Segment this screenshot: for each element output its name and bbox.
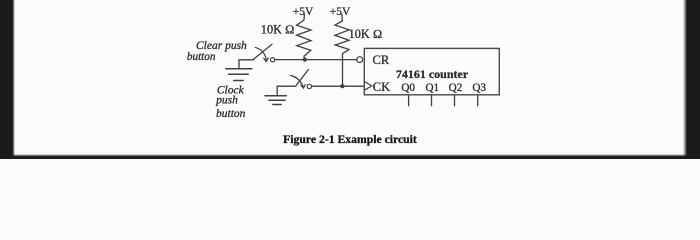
svg-text:+5V: +5V — [293, 6, 314, 18]
wire: Q0 output pin — [408, 95, 410, 106]
svg-text:Q2: Q2 — [449, 82, 463, 94]
wire: clear ground riser and stub to switch — [239, 60, 254, 68]
wire: R2 bottom down to CK net (crosses CR wire) — [342, 54, 344, 87]
right black border bar — [682, 0, 700, 159]
svg-text:Q1: Q1 — [425, 82, 439, 94]
wire: CK net from switch to counter — [312, 85, 365, 87]
resistor R2 10K ohm zigzag — [335, 21, 349, 54]
wire: Q3 output pin — [477, 95, 479, 106]
switch S2 clock pushbutton lever — [296, 70, 309, 86]
svg-text:button: button — [187, 51, 216, 63]
svg-text:Q3: Q3 — [472, 82, 486, 94]
switch S1 clear pushbutton lever — [254, 44, 273, 59]
switch S1 actuator arrow — [255, 47, 266, 59]
left black border bar — [0, 0, 16, 159]
ground (clock button) — [265, 96, 286, 105]
svg-text:CR: CR — [373, 53, 390, 67]
resistor R1 10K ohm zigzag — [297, 20, 311, 56]
svg-text:10K Ω: 10K Ω — [261, 23, 295, 37]
svg-text:push: push — [215, 95, 238, 107]
wire: R1 bottom to CR net — [303, 56, 306, 59]
svg-text:Q0: Q0 — [401, 82, 415, 94]
switch S2 contact circle — [307, 84, 311, 88]
wire: +5V lead into R1 — [303, 14, 305, 20]
wire: clock ground riser and stub to switch — [277, 86, 296, 95]
svg-text:Figure 2-1 Example circuit: Figure 2-1 Example circuit — [283, 133, 417, 146]
junction dot on CK net at R2 — [340, 84, 344, 88]
ground (clear button) — [226, 69, 252, 81]
wire: Q2 output pin — [454, 95, 456, 106]
CR input inverter bubble — [357, 57, 363, 63]
bottom black border bar — [0, 153, 700, 159]
switch S2 actuator arrow — [291, 76, 304, 87]
svg-text:74161 counter: 74161 counter — [396, 67, 469, 81]
svg-text:10K Ω: 10K Ω — [349, 27, 383, 41]
svg-text:CK: CK — [373, 80, 390, 94]
svg-text:Clear push: Clear push — [196, 40, 247, 52]
svg-text:button: button — [216, 108, 246, 120]
junction dot on CR net at R1 — [303, 58, 307, 62]
wire: Q1 output pin — [431, 95, 433, 106]
CK clock edge triangle — [364, 82, 372, 91]
wire: +5V lead into R2 — [341, 14, 343, 21]
svg-text:+5V: +5V — [330, 6, 351, 18]
switch S1 contact circle — [270, 58, 274, 62]
wire: CR net from switch to counter — [275, 59, 357, 61]
op U1 74161 counter box — [364, 48, 499, 94]
